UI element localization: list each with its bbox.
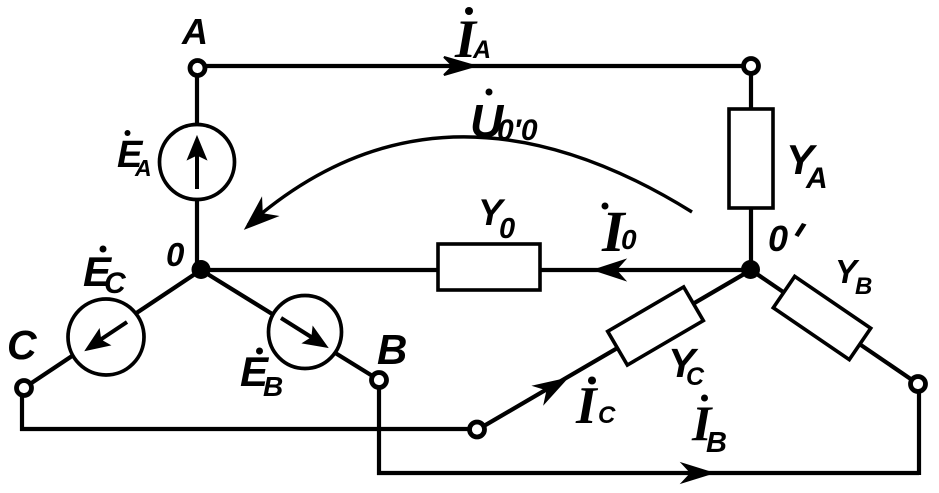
svg-text:A: A (134, 155, 152, 181)
svg-text:0: 0 (621, 224, 637, 255)
svg-text:0: 0 (166, 236, 185, 273)
svg-text:C: C (7, 322, 38, 368)
svg-text:I: I (575, 377, 599, 435)
svg-text:C: C (104, 267, 127, 300)
svg-text:A: A (181, 11, 208, 52)
svg-text:0′0: 0′0 (497, 114, 538, 147)
svg-text:A: A (472, 36, 491, 64)
svg-text:B: B (706, 427, 727, 459)
svg-text:B: B (263, 371, 283, 402)
svg-text:C: C (598, 402, 616, 429)
svg-text:0: 0 (499, 213, 515, 245)
svg-text:A: A (805, 162, 828, 195)
svg-text:C: C (686, 363, 705, 391)
svg-text:B: B (377, 326, 407, 373)
svg-text:0: 0 (768, 218, 788, 259)
svg-text:B: B (855, 273, 872, 300)
